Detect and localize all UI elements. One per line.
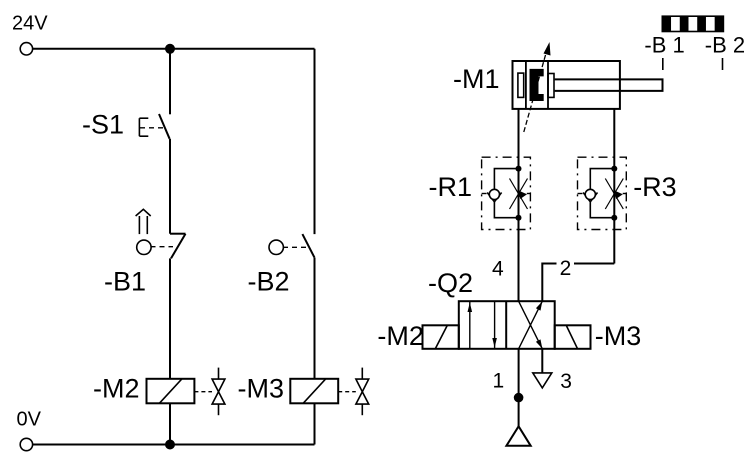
cylinder magnet piston	[530, 69, 544, 101]
compressed air supply	[506, 426, 530, 446]
R1 check seat	[487, 193, 501, 202]
valve Q2 divider	[505, 301, 507, 349]
valve Q2 left position arrow B	[492, 338, 497, 348]
R1 check ball	[489, 189, 499, 199]
valve cross-ref symbol at M3	[356, 368, 369, 416]
svg-text:-M2: -M2	[377, 321, 424, 351]
cushioning adjust arrow	[524, 42, 551, 132]
R3 check branch	[590, 169, 614, 218]
wire port 3 down	[541, 349, 543, 373]
R3 junction bottom	[611, 215, 617, 221]
svg-text:-R1: -R1	[429, 172, 473, 202]
contact B1	[170, 234, 186, 259]
svg-text:4: 4	[492, 257, 504, 280]
junction port 1	[514, 393, 524, 403]
wire B2 to M3 coil	[314, 258, 316, 379]
valve Q2 arrow to port 3	[536, 339, 542, 348]
wire cylinder right port down	[613, 109, 615, 264]
sensor B2 circle	[269, 240, 283, 254]
R3 check seat	[583, 193, 597, 202]
R3 throttle	[605, 179, 623, 210]
cylinder piston right wall	[547, 61, 549, 109]
valve Q2 left position arrow A	[468, 303, 473, 313]
dashed link B2	[283, 246, 309, 248]
relay coil M2	[147, 379, 195, 404]
svg-text:-B1: -B1	[104, 266, 146, 296]
wire M3 coil to 0V rail	[314, 403, 316, 444]
cylinder piston left wall	[525, 61, 527, 109]
wire S1 upper	[169, 49, 171, 115]
valve Q2 cross path 4-3	[519, 301, 543, 349]
relay coil M3	[290, 379, 338, 404]
dashed link M3 to valve symbol	[338, 391, 356, 393]
junction bottom rail	[165, 440, 175, 450]
ruler tick B2	[722, 58, 724, 70]
wire B2 branch upper	[314, 49, 316, 234]
R1 check branch	[494, 169, 518, 218]
svg-text:-S1: -S1	[82, 110, 124, 140]
sensor B1 circle	[137, 240, 151, 254]
svg-text:3: 3	[560, 370, 572, 393]
wire M2 coil to 0V rail	[169, 403, 171, 444]
cylinder M1 body	[513, 61, 620, 109]
svg-text:2: 2	[560, 257, 572, 280]
R3 throttle arrow	[615, 191, 623, 199]
wire port2 link	[542, 264, 614, 302]
flow control R3 frame	[578, 157, 627, 229]
svg-text:-M3: -M3	[595, 321, 642, 351]
piston rod	[555, 79, 663, 91]
svg-text:-B 1: -B 1	[644, 32, 684, 57]
R3 axis dashes	[578, 193, 583, 195]
sensor B1 actuator arrow	[136, 209, 151, 234]
wire port 1 down	[518, 349, 520, 427]
svg-text:-B 2: -B 2	[705, 32, 745, 57]
R1 junction top	[516, 166, 522, 172]
terminal 24V	[20, 43, 32, 55]
svg-text:-R3: -R3	[633, 172, 677, 202]
svg-text:-B2: -B2	[248, 266, 290, 296]
switch S1	[139, 114, 169, 139]
valve Q2 cross path 1-2	[519, 301, 543, 349]
valve Q2 left position line A	[469, 301, 471, 349]
svg-text:0V: 0V	[17, 409, 42, 431]
valve Q2 left position line B	[494, 301, 496, 349]
svg-text:1: 1	[493, 370, 505, 393]
ruler scale bar	[662, 16, 723, 31]
terminal 0V	[20, 438, 32, 450]
svg-text:24V: 24V	[12, 13, 48, 35]
wire S1 to B1	[169, 139, 171, 234]
svg-text:-Q2: -Q2	[428, 268, 473, 298]
cylinder left cushion	[518, 73, 524, 97]
solenoid M3 box	[555, 325, 591, 349]
valve Q2 arrow to port 2	[536, 301, 542, 310]
label port 2 background	[557, 256, 575, 275]
solenoid M2 box	[423, 325, 459, 349]
R1 axis dashes	[482, 193, 487, 195]
wire bottom rail	[33, 444, 315, 446]
R1 throttle	[510, 179, 528, 210]
valve cross-ref symbol at M2	[212, 368, 225, 416]
wire top rail	[33, 48, 315, 50]
R1 junction bottom	[516, 215, 522, 221]
valve Q2 body	[459, 301, 555, 349]
contact B2	[302, 234, 314, 258]
ruler tick B1	[662, 58, 664, 70]
R3 junction top	[611, 166, 617, 172]
flow control R1 frame	[482, 157, 531, 229]
R1 throttle arrow	[519, 191, 527, 199]
dashed link B1	[151, 246, 174, 248]
junction top rail	[165, 44, 175, 54]
cylinder rod flange	[548, 74, 554, 98]
dashed link M2 to valve symbol	[194, 391, 212, 393]
svg-text:-M2: -M2	[93, 374, 140, 404]
exhaust port 3	[533, 373, 552, 388]
wire cylinder left port down	[518, 109, 520, 301]
svg-text:-M1: -M1	[453, 64, 500, 94]
R3 check ball	[585, 189, 595, 199]
wire B1 to M2 coil	[169, 258, 171, 378]
svg-text:-M3: -M3	[238, 374, 285, 404]
